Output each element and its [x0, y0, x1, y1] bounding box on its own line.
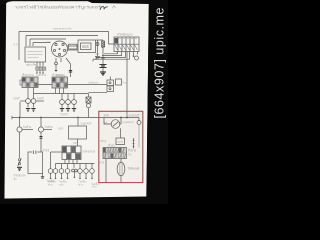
svg-text:สวิตช์แตร: สวิตช์แตร	[88, 81, 99, 85]
svg-text:แตร: แตร	[58, 128, 63, 131]
svg-text:จาน: จาน	[47, 41, 52, 44]
svg-text:ขั้วต่อสาย: ขั้วต่อสาย	[22, 73, 34, 77]
svg-text:ไฟ: ไฟ	[127, 153, 131, 157]
svg-text:ถ.ถ: ถ.ถ	[14, 44, 18, 47]
svg-text:รีเลย์: รีเลย์	[122, 81, 128, 85]
svg-text:แบตเตอรี่: แบตเตอรี่	[81, 122, 92, 126]
svg-text:แตร: แตร	[73, 142, 78, 145]
svg-text:สวิตช์เบรก: สวิตช์เบรก	[14, 174, 27, 178]
svg-text:ไฟ: ไฟ	[103, 121, 107, 125]
svg-text:หน้า: หน้า	[59, 183, 64, 187]
svg-text:วงจรไฟมีโซลินอยด์ของคาร์บูเรเต: วงจรไฟมีโซลินอยด์ของคาร์บูเรเตอร์	[14, 4, 101, 9]
svg-text:ขวา: ขวา	[79, 184, 84, 187]
svg-text:ไฟท้าย: ไฟท้าย	[44, 125, 54, 129]
svg-text:ซ้าย: ซ้าย	[48, 183, 53, 187]
svg-text:ฟิวส์: ฟิวส์	[103, 114, 109, 118]
svg-text:แมกนีโต: แมกนีโต	[36, 73, 46, 77]
svg-text:ไฟหน้า: ไฟหน้า	[59, 113, 69, 117]
svg-text:ไฟท้าย: ไฟท้าย	[22, 125, 32, 129]
svg-text:ขั้วสาย: ขั้วสาย	[128, 149, 136, 153]
svg-text:ขั้วต่อสาย: ขั้วต่อสาย	[52, 73, 64, 77]
svg-text:สวิตช์: สวิตช์	[43, 149, 50, 153]
svg-text:ไฟหรี่: ไฟหรี่	[36, 97, 44, 101]
svg-text:แบตเตอรี่: แบตเตอรี่	[129, 114, 140, 118]
svg-text:คอยล์: คอยล์	[117, 141, 123, 144]
svg-text:ท้าย: ท้าย	[92, 185, 97, 189]
svg-text:ไฟหรี่: ไฟหรี่	[12, 97, 20, 101]
svg-text:มือ: มือ	[13, 177, 17, 181]
svg-text:สาย: สาย	[100, 161, 105, 165]
svg-text:[664x907] upic.me: [664x907] upic.me	[153, 7, 167, 119]
svg-text:ขั้วต่อ: ขั้วต่อ	[108, 143, 115, 147]
svg-text:โซลินอยด์: โซลินอยด์	[128, 167, 140, 171]
svg-text:แฟลชเชอร์: แฟลชเชอร์	[82, 150, 95, 154]
svg-text:แอมมิเตอร์: แอมมิเตอร์	[123, 120, 135, 124]
svg-text:คต: คต	[96, 53, 100, 56]
